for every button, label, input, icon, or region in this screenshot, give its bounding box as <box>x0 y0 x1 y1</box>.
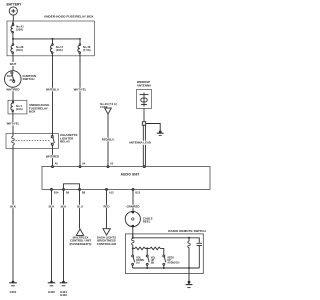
svg-text:BAT: BAT <box>7 75 12 78</box>
svg-text:A4: A4 <box>82 162 86 165</box>
svg-text:AUDIO UNIT: AUDIO UNIT <box>121 172 140 176</box>
svg-text:WHT/YEL: WHT/YEL <box>7 122 20 126</box>
svg-text:B6: B6 <box>66 191 70 194</box>
svg-text:ACC: ACC <box>9 79 15 82</box>
svg-text:B14: B14 <box>54 191 59 194</box>
svg-text:FUSE: FUSE <box>100 105 107 109</box>
svg-text:(20A): (20A) <box>56 48 63 52</box>
svg-text:RED: RED <box>104 204 110 208</box>
svg-text:ANTENNA LEAD: ANTENNA LEAD <box>129 141 151 145</box>
svg-text:A5: A5 <box>55 162 59 165</box>
svg-text:RELAY: RELAY <box>60 139 70 143</box>
svg-text:WHT/RED: WHT/RED <box>46 154 59 158</box>
svg-text:SWITCH: SWITCH <box>23 77 35 81</box>
svg-text:G501: G501 <box>10 290 17 294</box>
svg-text:WHT/YEL: WHT/YEL <box>74 87 87 91</box>
svg-text:(10A): (10A) <box>16 107 23 111</box>
svg-text:G403: G403 <box>60 293 67 297</box>
svg-text:A2: A2 <box>110 162 114 165</box>
svg-text:(40A): (40A) <box>16 48 23 52</box>
svg-text:B8: B8 <box>82 191 86 194</box>
svg-text:ANTENNA: ANTENNA <box>137 83 152 87</box>
svg-text:(PASSENGER'S): (PASSENGER'S) <box>69 242 91 246</box>
svg-text:REEL: REEL <box>143 219 151 223</box>
svg-text:(50A): (50A) <box>16 28 23 32</box>
svg-text:AUDIO/CH: AUDIO/CH <box>167 262 179 265</box>
svg-text:BATTERY: BATTERY <box>7 3 23 7</box>
svg-text:B13: B13 <box>135 191 140 194</box>
svg-text:A13: A13 <box>109 191 114 194</box>
svg-text:BLK: BLK <box>10 204 16 208</box>
svg-text:G402: G402 <box>48 290 55 294</box>
svg-text:WHT/BLU: WHT/BLU <box>46 87 59 91</box>
svg-text:BOX: BOX <box>29 110 36 114</box>
svg-text:(7.5A): (7.5A) <box>83 48 91 52</box>
svg-text:WHT: WHT <box>10 62 17 66</box>
svg-text:BLK: BLK <box>49 204 55 208</box>
svg-text:GRN/RED: GRN/RED <box>126 204 139 208</box>
svg-text:RADIO REMOTE SWITCH: RADIO REMOTE SWITCH <box>168 229 206 233</box>
svg-text:UNDER-HOOD FUSE/RELAY BOX: UNDER-HOOD FUSE/RELAY BOX <box>44 15 94 19</box>
svg-text:WHT/RED: WHT/RED <box>6 87 19 91</box>
svg-text:BLU: BLU <box>77 204 83 208</box>
svg-text:(A): (A) <box>136 262 140 265</box>
svg-text:CONTROLLER: CONTROLLER <box>97 242 117 246</box>
svg-text:BLK: BLK <box>61 204 67 208</box>
svg-text:RED/BLU: RED/BLU <box>102 138 115 142</box>
svg-text:(B): (B) <box>151 262 155 265</box>
